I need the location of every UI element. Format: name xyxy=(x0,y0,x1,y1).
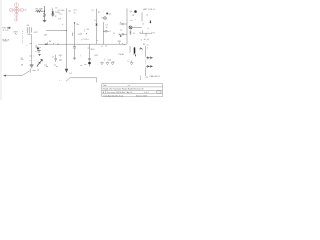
ground xyxy=(30,65,34,67)
tick xyxy=(119,42,121,44)
svg-text:e b: e b xyxy=(130,20,133,22)
junction xyxy=(66,30,67,31)
wire xyxy=(31,34,33,65)
battery B1 cell pair 2 xyxy=(146,65,153,68)
wire xyxy=(103,22,105,44)
battery B1 cell pair 1 xyxy=(146,56,153,59)
terminal xyxy=(149,20,151,22)
junction xyxy=(58,44,59,45)
transistor Q3 xyxy=(106,13,108,15)
junction xyxy=(74,22,75,23)
svg-text:R9: R9 xyxy=(87,29,89,31)
svg-text:J2: J2 xyxy=(142,23,144,25)
svg-text:1u: 1u xyxy=(106,27,108,29)
svg-text:( C 0.1u: ( C 0.1u xyxy=(81,39,88,41)
dashes xyxy=(21,65,57,67)
svg-text:c: c xyxy=(107,19,108,21)
resistor R2 xyxy=(44,13,46,17)
svg-text:SW: SW xyxy=(118,41,121,43)
diode D4 xyxy=(36,48,39,50)
capacitor marks xyxy=(88,59,91,60)
wire xyxy=(129,46,131,53)
capacitor C13 xyxy=(54,55,57,62)
svg-text:L1: L1 xyxy=(146,14,148,16)
svg-text:EXT ANT: EXT ANT xyxy=(2,27,11,30)
wire stub xyxy=(120,29,122,31)
wire xyxy=(132,26,141,28)
arrowhead xyxy=(3,75,6,77)
svg-text:0.1: 0.1 xyxy=(94,20,97,22)
svg-text:2n: 2n xyxy=(74,13,76,15)
svg-text:C5: C5 xyxy=(52,57,54,59)
svg-text:c: c xyxy=(135,19,136,21)
wire xyxy=(44,17,46,20)
coil T1 xyxy=(140,32,152,37)
svg-text:b: b xyxy=(148,28,149,30)
svg-text:c: c xyxy=(27,45,28,47)
wire xyxy=(145,68,147,76)
svg-text:10: 10 xyxy=(105,45,107,47)
svg-text:10: 10 xyxy=(113,33,115,35)
plates xyxy=(37,50,40,52)
wire xyxy=(74,22,76,46)
tick xyxy=(53,43,55,44)
wire (right vertical net) xyxy=(126,8,128,44)
ground xyxy=(51,15,54,17)
svg-text:Date April 30 2011 Scale: Date April 30 2011 Scale xyxy=(104,94,124,97)
capacitor C10 xyxy=(72,33,74,36)
wire xyxy=(141,12,143,21)
resistor R1 xyxy=(35,10,43,12)
svg-text:o: o xyxy=(60,60,61,62)
terminal xyxy=(150,22,151,23)
ground xyxy=(73,58,76,60)
svg-text:0.1u: 0.1u xyxy=(59,13,63,15)
wire xyxy=(96,9,98,24)
svg-text:1u: 1u xyxy=(127,61,129,63)
ground GND4 xyxy=(130,61,133,64)
tick xyxy=(46,42,48,44)
svg-text:r2: r2 xyxy=(101,45,103,48)
junction xyxy=(44,11,45,12)
svg-text:Q1: Q1 xyxy=(109,13,112,15)
wire stub xyxy=(141,30,143,33)
ground lug xyxy=(15,33,17,34)
svg-text:1: 1 xyxy=(110,31,111,33)
switch S1 xyxy=(140,48,142,50)
svg-text:+ -: + - xyxy=(59,80,62,82)
svg-text:rx1: rx1 xyxy=(128,85,131,87)
stub xyxy=(80,33,82,34)
svg-text:d: d xyxy=(36,45,37,47)
mark xyxy=(133,53,134,55)
wire to title block xyxy=(66,78,97,83)
arrowhead xyxy=(65,69,69,73)
variable capacitor arrow xyxy=(37,59,42,66)
svg-text:b e: b e xyxy=(101,18,104,20)
diode D1 xyxy=(52,9,54,11)
ground GND3 xyxy=(111,61,114,64)
junction xyxy=(120,35,122,37)
transistor Q5 xyxy=(134,10,137,13)
ground GND2 xyxy=(106,61,109,64)
marks xyxy=(35,52,38,71)
svg-text:GND: GND xyxy=(13,31,18,33)
capacitor C3 xyxy=(73,47,76,48)
svg-text:ANT COIL L1: ANT COIL L1 xyxy=(143,8,156,11)
stub xyxy=(29,68,31,72)
svg-text:1k: 1k xyxy=(133,33,135,35)
wire xyxy=(74,48,76,58)
svg-text:VOL: VOL xyxy=(108,59,112,61)
wire xyxy=(22,71,30,76)
transistor Q4 xyxy=(129,26,132,29)
wire (ground bus) xyxy=(38,43,127,45)
stub xyxy=(122,53,123,56)
stub xyxy=(80,65,82,67)
svg-text:S1: S1 xyxy=(143,44,145,46)
transistor Q7 xyxy=(88,62,91,65)
svg-text:B+ 3V: B+ 3V xyxy=(144,39,150,41)
marks xyxy=(29,55,31,57)
capacitor C4 xyxy=(104,31,105,32)
tick xyxy=(122,43,124,44)
mark top xyxy=(135,54,137,56)
title block xyxy=(102,84,163,97)
svg-text:C2 100: C2 100 xyxy=(58,10,65,12)
tick xyxy=(123,44,125,45)
resistor R8 xyxy=(130,30,132,35)
svg-text:R10: R10 xyxy=(91,49,94,51)
heavy segment xyxy=(45,43,48,45)
tick xyxy=(88,47,90,49)
connector J1 pad xyxy=(8,27,10,29)
svg-text:4.7k: 4.7k xyxy=(58,18,62,20)
transformer T2 xyxy=(27,27,31,34)
wire xyxy=(89,44,91,66)
svg-text:Simple One Transistor Regen Ra: Simple One Transistor Regen Radio Receiv… xyxy=(103,88,144,91)
wire (main vertical net) xyxy=(66,8,68,44)
electrolytic capacitor C14 xyxy=(134,47,136,53)
svg-text:n: n xyxy=(40,47,41,49)
svg-text:}↓: }↓ xyxy=(52,7,54,10)
diode D2 xyxy=(96,22,98,24)
svg-text:T1: T1 xyxy=(153,33,155,35)
tick xyxy=(84,63,86,65)
svg-text:2 AA CELLS: 2 AA CELLS xyxy=(149,75,160,78)
capacitor C6 xyxy=(119,34,120,35)
wire with output arrow xyxy=(66,44,68,69)
ground GND1 xyxy=(100,61,103,64)
svg-text:k: k xyxy=(147,47,148,49)
svg-text:1 of 1: 1 of 1 xyxy=(144,92,149,94)
marks xyxy=(33,69,36,71)
capacitor C5 xyxy=(120,23,128,25)
svg-text:on: on xyxy=(146,45,148,47)
shield (dashed) xyxy=(22,31,24,44)
wire xyxy=(46,30,67,32)
ground xyxy=(43,20,47,22)
svg-text:Sheet 1 KD6T: Sheet 1 KD6T xyxy=(136,94,148,97)
battery dashed link xyxy=(145,60,147,65)
transistor Q2 xyxy=(104,17,106,19)
stub xyxy=(62,23,63,25)
tuning capacitor assembly VC1 (red pictorial) xyxy=(9,3,26,22)
svg-text:R11: R11 xyxy=(95,55,98,57)
svg-text:gn: gn xyxy=(55,16,57,18)
wire xyxy=(44,6,46,13)
wire stub xyxy=(120,22,121,24)
svg-text:Document 1045-A Rev 2 Apr 30: Document 1045-A Rev 2 Apr 30 xyxy=(107,91,132,94)
wire xyxy=(96,26,98,45)
tick xyxy=(30,43,32,45)
svg-text:J1 TIP: J1 TIP xyxy=(2,30,9,32)
svg-text:R7: R7 xyxy=(98,12,100,14)
wire xyxy=(145,46,147,57)
leader wire with arrow xyxy=(5,75,22,77)
